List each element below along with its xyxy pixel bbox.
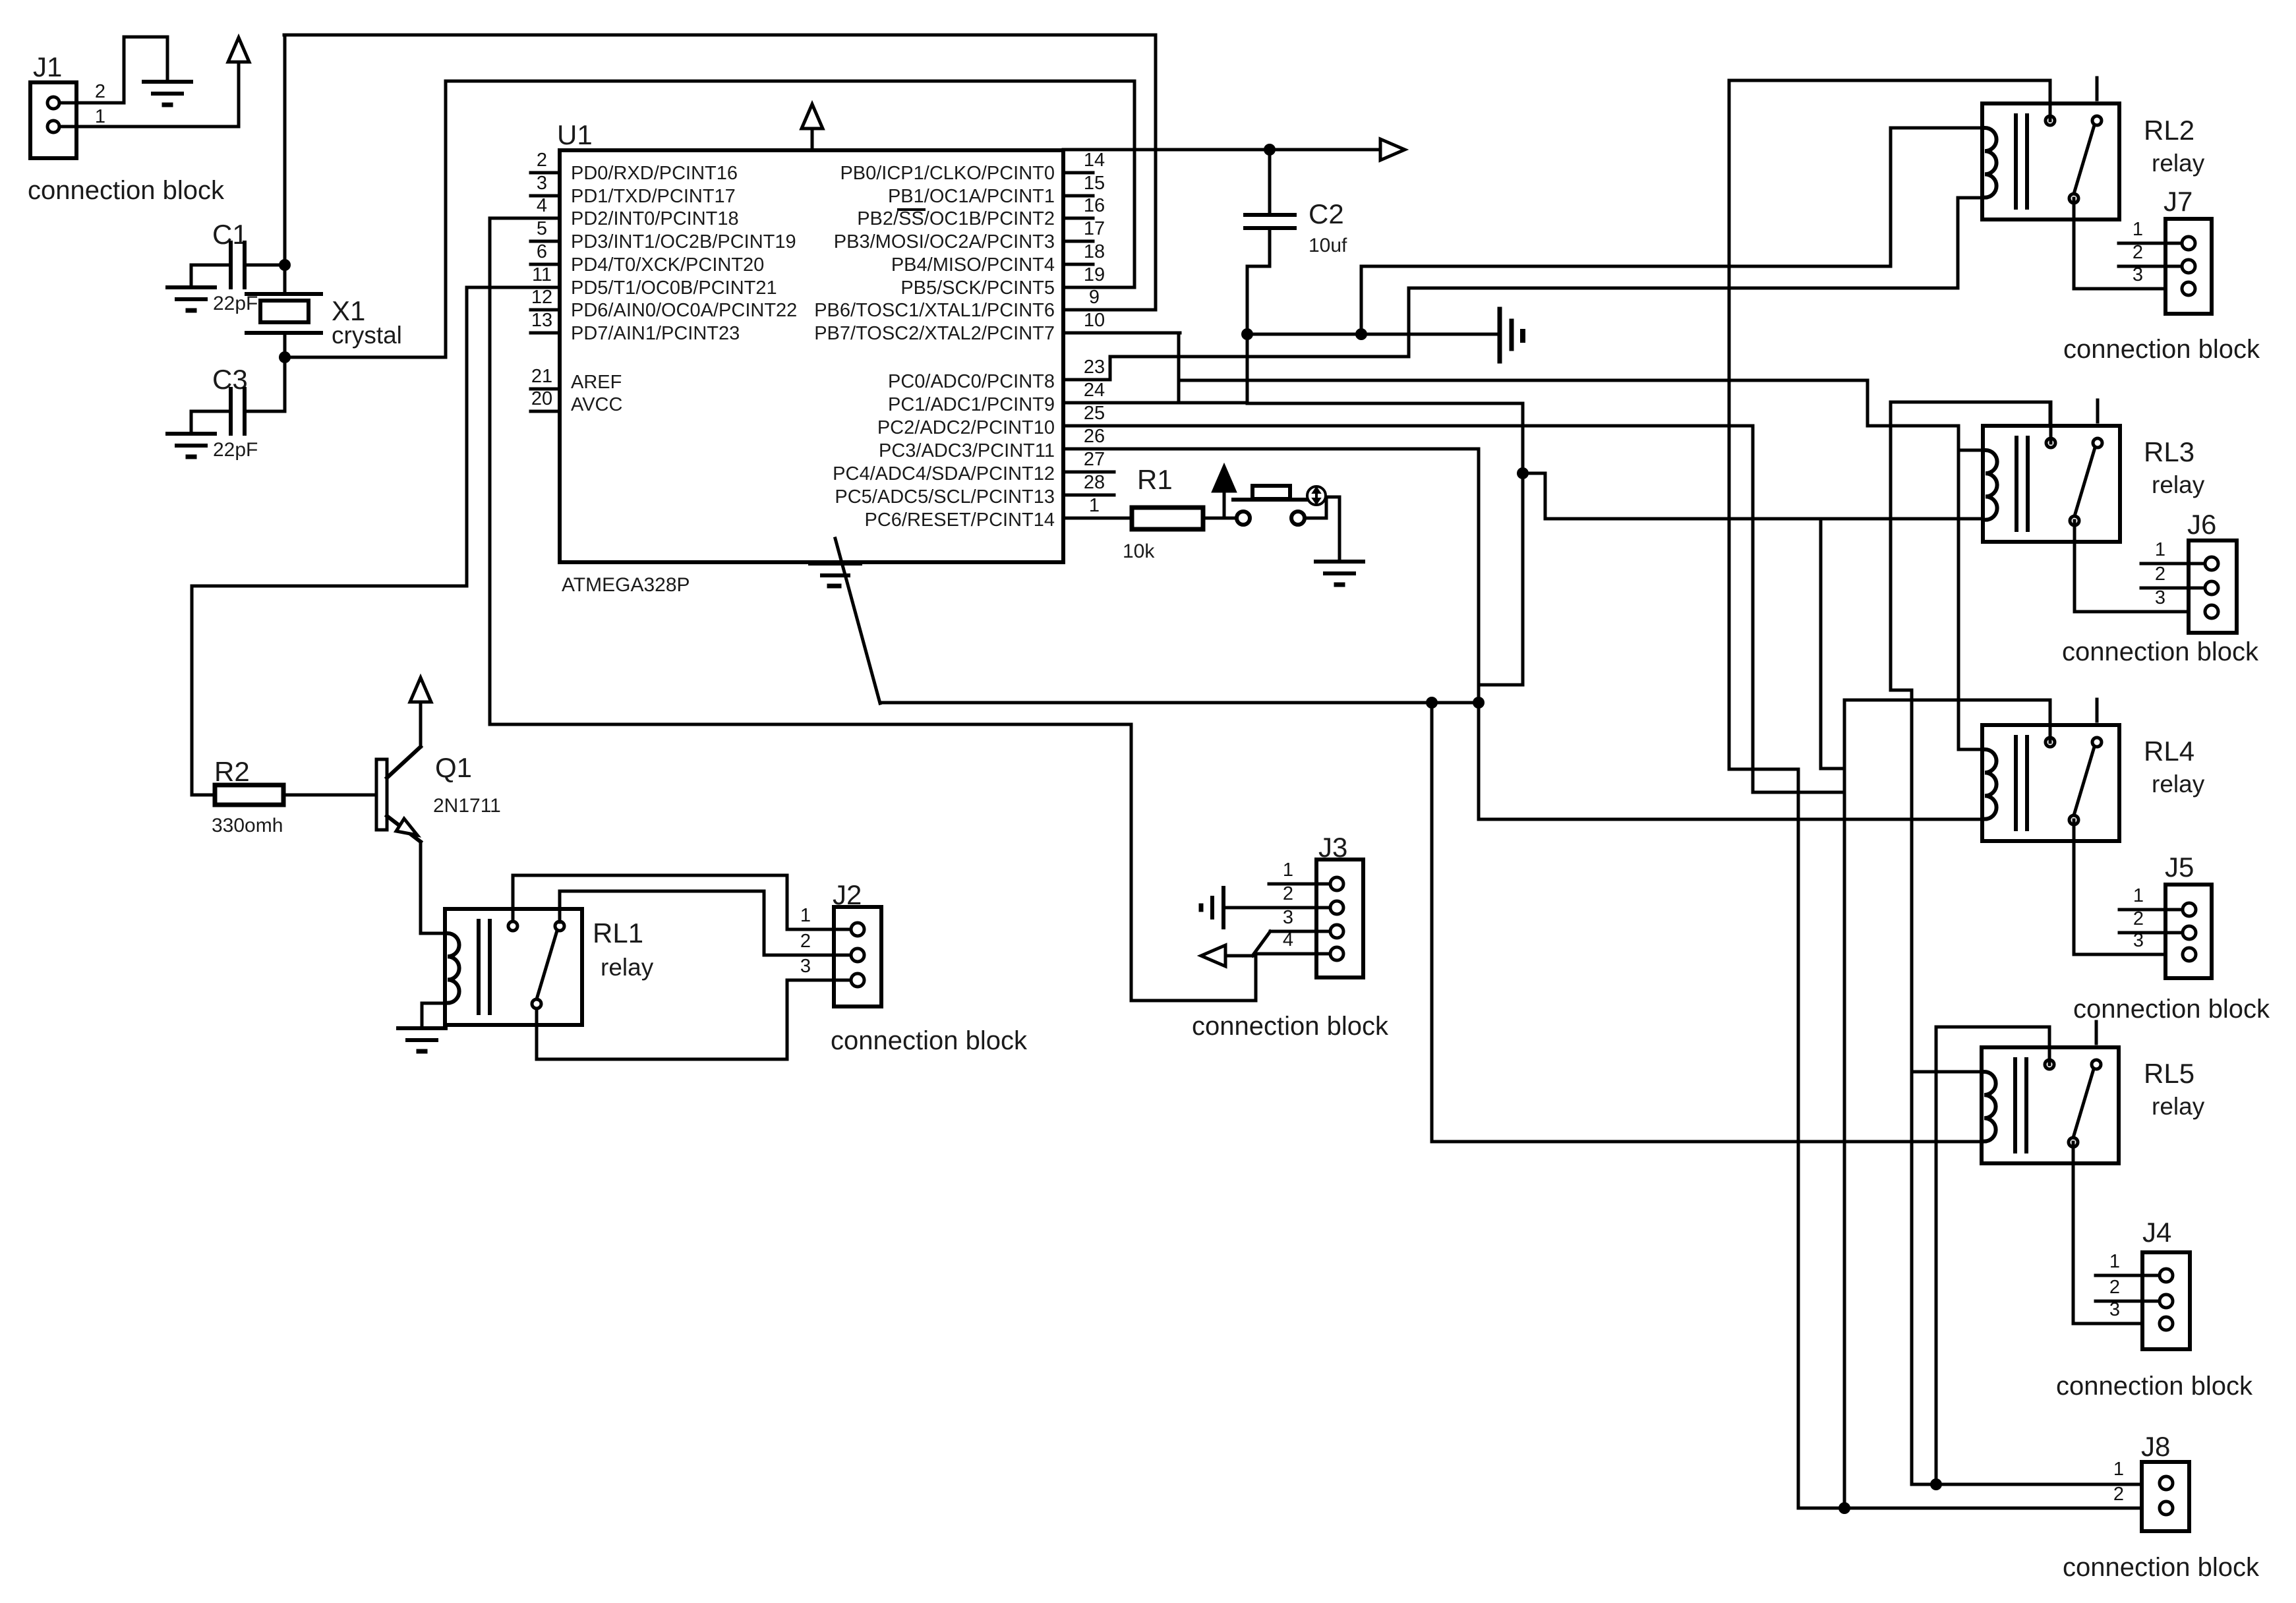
svg-text:18: 18 (1084, 241, 1105, 262)
svg-text:PC2/ADC2/PCINT10: PC2/ADC2/PCINT10 (877, 417, 1055, 438)
svg-text:1: 1 (2155, 539, 2165, 560)
svg-text:27: 27 (1084, 449, 1105, 470)
svg-text:2: 2 (2133, 908, 2144, 929)
svg-text:9: 9 (1089, 287, 1100, 308)
svg-text:connection block: connection block (28, 176, 225, 205)
svg-text:PB3/MOSI/OC2A/PCINT3: PB3/MOSI/OC2A/PCINT3 (834, 231, 1055, 252)
svg-text:3: 3 (2155, 587, 2165, 608)
svg-text:4: 4 (537, 195, 547, 216)
svg-text:PD4/T0/XCK/PCINT20: PD4/T0/XCK/PCINT20 (571, 254, 764, 276)
svg-text:13: 13 (531, 310, 552, 331)
svg-text:1: 1 (2133, 885, 2144, 906)
svg-text:PD7/AIN1/PCINT23: PD7/AIN1/PCINT23 (571, 323, 740, 344)
svg-text:connection block: connection block (2062, 637, 2259, 666)
svg-text:RL3: RL3 (2144, 436, 2194, 467)
svg-text:connection block: connection block (2063, 335, 2260, 364)
svg-text:J1: J1 (33, 51, 62, 82)
svg-text:RL2: RL2 (2144, 115, 2194, 146)
svg-text:PB5/SCK/PCINT5: PB5/SCK/PCINT5 (900, 277, 1055, 299)
svg-text:relay: relay (601, 954, 654, 981)
svg-text:connection block: connection block (2063, 1553, 2260, 1582)
svg-text:PB4/MISO/PCINT4: PB4/MISO/PCINT4 (891, 254, 1055, 276)
svg-text:connection block: connection block (2056, 1372, 2253, 1401)
svg-text:21: 21 (531, 366, 552, 387)
svg-text:R2: R2 (214, 756, 250, 787)
svg-text:RL5: RL5 (2144, 1058, 2194, 1089)
svg-text:2: 2 (2113, 1484, 2124, 1505)
svg-text:PD1/TXD/PCINT17: PD1/TXD/PCINT17 (571, 186, 736, 207)
svg-text:2: 2 (800, 931, 811, 952)
svg-text:10k: 10k (1123, 540, 1155, 562)
svg-text:PB1/OC1A/PCINT1: PB1/OC1A/PCINT1 (888, 186, 1055, 207)
svg-text:RL1: RL1 (593, 918, 643, 948)
svg-text:AREF: AREF (571, 372, 622, 393)
svg-text:relay: relay (2152, 1093, 2205, 1120)
svg-text:PD0/RXD/PCINT16: PD0/RXD/PCINT16 (571, 163, 738, 184)
svg-text:PC4/ADC4/SDA/PCINT12: PC4/ADC4/SDA/PCINT12 (833, 463, 1055, 484)
svg-text:PD3/INT1/OC2B/PCINT19: PD3/INT1/OC2B/PCINT19 (571, 231, 796, 252)
svg-text:crystal: crystal (332, 322, 402, 349)
svg-text:PC5/ADC5/SCL/PCINT13: PC5/ADC5/SCL/PCINT13 (835, 486, 1055, 508)
svg-text:J5: J5 (2165, 852, 2194, 883)
svg-text:17: 17 (1084, 218, 1105, 239)
svg-text:R1: R1 (1137, 464, 1173, 495)
svg-text:2: 2 (2133, 242, 2143, 263)
svg-text:5: 5 (537, 218, 547, 239)
svg-text:2: 2 (2155, 564, 2165, 585)
svg-text:PB6/TOSC1/XTAL1/PCINT6: PB6/TOSC1/XTAL1/PCINT6 (814, 300, 1055, 321)
svg-text:J4: J4 (2142, 1217, 2171, 1248)
svg-text:23: 23 (1084, 357, 1105, 378)
svg-text:RL4: RL4 (2144, 736, 2194, 767)
svg-text:relay: relay (2152, 771, 2205, 798)
svg-text:1: 1 (800, 905, 811, 926)
svg-text:1: 1 (1089, 495, 1100, 516)
svg-text:PB7/TOSC2/XTAL2/PCINT7: PB7/TOSC2/XTAL2/PCINT7 (814, 323, 1055, 344)
svg-text:PD6/AIN0/OC0A/PCINT22: PD6/AIN0/OC0A/PCINT22 (571, 300, 797, 321)
svg-text:C2: C2 (1309, 198, 1344, 229)
svg-text:24: 24 (1084, 380, 1105, 401)
svg-text:19: 19 (1084, 264, 1105, 285)
svg-text:2: 2 (2109, 1277, 2120, 1298)
svg-text:J3: J3 (1318, 832, 1347, 863)
svg-text:PD5/T1/OC0B/PCINT21: PD5/T1/OC0B/PCINT21 (571, 277, 777, 299)
svg-text:20: 20 (531, 388, 552, 409)
svg-text:J7: J7 (2164, 186, 2193, 217)
svg-text:J2: J2 (833, 879, 862, 910)
svg-text:J8: J8 (2141, 1431, 2170, 1462)
svg-text:22pF: 22pF (213, 439, 258, 461)
svg-text:3: 3 (1283, 907, 1293, 928)
svg-text:PD2/INT0/PCINT18: PD2/INT0/PCINT18 (571, 208, 739, 229)
svg-text:1: 1 (2109, 1251, 2120, 1272)
svg-text:2: 2 (1283, 883, 1293, 904)
svg-text:ATMEGA328P: ATMEGA328P (562, 574, 690, 596)
svg-text:330omh: 330omh (212, 815, 283, 836)
svg-text:3: 3 (800, 956, 811, 977)
svg-text:1: 1 (1283, 860, 1293, 881)
svg-text:3: 3 (537, 173, 547, 194)
svg-text:1: 1 (95, 106, 105, 127)
svg-text:2N1711: 2N1711 (433, 795, 501, 817)
svg-text:Q1: Q1 (435, 752, 472, 783)
svg-text:1: 1 (2133, 219, 2143, 240)
svg-text:relay: relay (2152, 150, 2205, 177)
svg-text:1: 1 (2113, 1459, 2124, 1480)
svg-text:14: 14 (1084, 150, 1105, 171)
svg-text:10uf: 10uf (1309, 235, 1347, 256)
svg-text:connection block: connection block (831, 1026, 1028, 1055)
svg-text:connection block: connection block (1192, 1012, 1389, 1041)
svg-text:PC6/RESET/PCINT14: PC6/RESET/PCINT14 (865, 510, 1055, 531)
svg-text:2: 2 (537, 150, 547, 171)
svg-text:PB0/ICP1/CLKO/PCINT0: PB0/ICP1/CLKO/PCINT0 (840, 163, 1055, 184)
svg-text:relay: relay (2152, 471, 2205, 498)
svg-text:PB2/SS/OC1B/PCINT2: PB2/SS/OC1B/PCINT2 (857, 208, 1055, 229)
svg-text:PC3/ADC3/PCINT11: PC3/ADC3/PCINT11 (879, 440, 1055, 461)
svg-text:PC1/ADC1/PCINT9: PC1/ADC1/PCINT9 (888, 394, 1055, 415)
svg-text:6: 6 (537, 241, 547, 262)
svg-text:connection block: connection block (2073, 995, 2270, 1024)
svg-text:PC0/ADC0/PCINT8: PC0/ADC0/PCINT8 (888, 371, 1055, 392)
svg-text:U1: U1 (557, 119, 593, 150)
svg-text:2: 2 (95, 81, 105, 102)
svg-text:J6: J6 (2187, 509, 2216, 540)
svg-text:16: 16 (1084, 195, 1105, 216)
svg-text:12: 12 (531, 287, 552, 308)
svg-text:26: 26 (1084, 426, 1105, 447)
svg-text:11: 11 (532, 264, 552, 285)
svg-text:AVCC: AVCC (571, 394, 622, 415)
svg-text:10: 10 (1084, 310, 1105, 331)
svg-text:15: 15 (1084, 173, 1105, 194)
svg-text:28: 28 (1084, 472, 1105, 493)
svg-text:25: 25 (1084, 403, 1105, 424)
